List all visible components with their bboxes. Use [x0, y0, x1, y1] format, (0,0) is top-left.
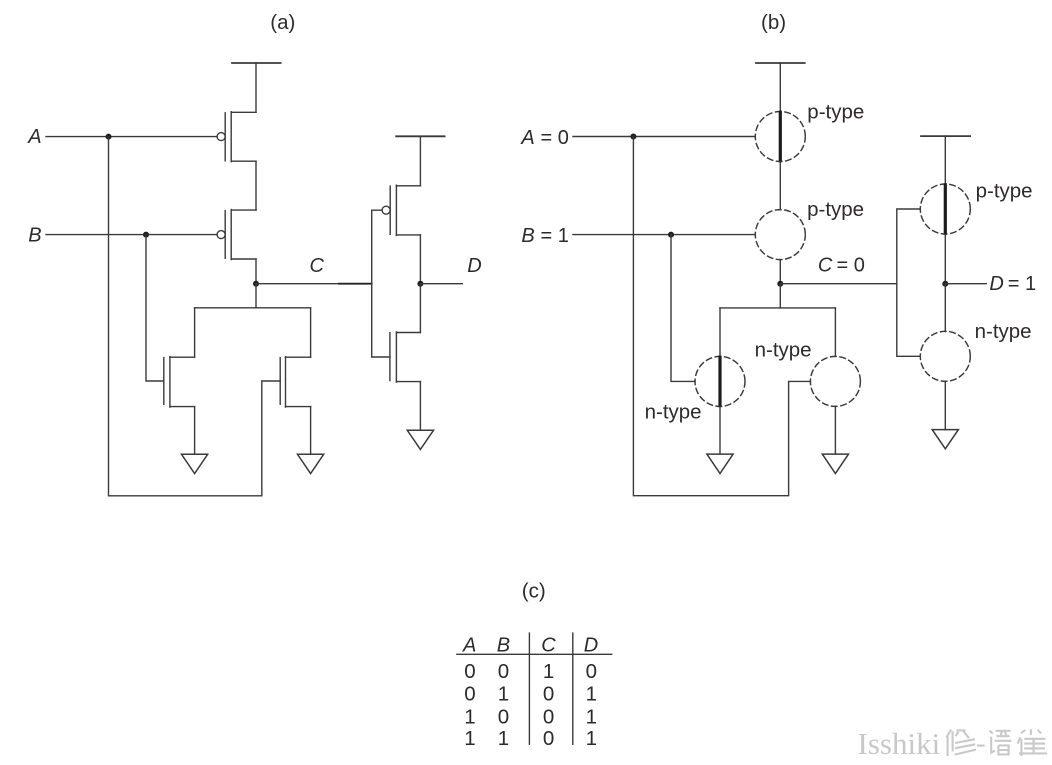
transistor Q5 (p-type, inverter) [382, 185, 420, 235]
svg-text:0: 0 [498, 706, 509, 729]
power rail VDD (b) NAND [756, 62, 805, 64]
ground symbol (b) inverter [932, 430, 958, 449]
wire Q3 source to ground [194, 407, 196, 455]
svg-text:p-type: p-type [807, 101, 864, 124]
node A junction [106, 134, 112, 140]
transistor T4 (n-type OFF, gate A) dashed circle [810, 356, 860, 406]
wire VDD rail to T1 [779, 63, 781, 112]
transistor Q2 (p-type, gate B) [217, 210, 256, 260]
node C (b) [777, 281, 783, 287]
svg-text:D: D [467, 255, 481, 277]
svg-text:D: D [989, 273, 1003, 295]
ground symbol (a) left [182, 454, 208, 473]
wire inverter gate bus [372, 210, 390, 357]
label B = 1 [521, 225, 568, 247]
wire Q6 source to ground [419, 382, 421, 431]
truth table row 3 [464, 706, 597, 729]
truth table row 1 [464, 660, 597, 683]
svg-text:1: 1 [543, 660, 554, 683]
wire node C to inverter input [256, 283, 372, 285]
truth table vertical rule 2 [572, 632, 574, 745]
transistor T5 conducting channel bar [944, 185, 947, 233]
svg-text:A: A [462, 634, 476, 656]
wire bus right drop [310, 308, 312, 357]
svg-text:1: 1 [586, 727, 597, 750]
svg-text:0: 0 [543, 706, 554, 729]
wire node D output (b) [945, 283, 986, 285]
wire overlap segment C to gate bus [339, 283, 372, 285]
svg-text:0: 0 [464, 660, 475, 683]
transistor T2 (p-type OFF, gate B) dashed circle [755, 210, 805, 260]
wire Q1 source to Q2 drain [255, 161, 257, 210]
svg-text:= 1: = 1 [1008, 273, 1036, 295]
ground symbol (b) right [822, 454, 848, 473]
ground symbol (a) inverter [407, 430, 433, 449]
transistor T5 (p-type ON, inverter) dashed circle [920, 184, 970, 234]
transistor Q3 (n-type, gate B) [164, 357, 195, 408]
svg-text:0: 0 [543, 683, 554, 706]
watermark CJK characters [948, 731, 1049, 758]
wire B junction to Q3 gate [146, 235, 164, 381]
svg-text:B: B [28, 224, 41, 246]
wire node D to T6 [944, 284, 946, 332]
svg-text:C: C [818, 255, 833, 277]
ground symbol (b) left [707, 454, 733, 473]
wire B junction to T3 gate [671, 235, 695, 382]
wire node C to pull-down bus (b) [720, 284, 780, 308]
wire T2 to node C [779, 260, 781, 284]
wire bus left drop (b) [719, 308, 721, 357]
svg-text:= 0: = 0 [541, 127, 569, 149]
transistor T3 conducting channel bar [718, 357, 721, 405]
svg-text:= 1: = 1 [541, 225, 569, 247]
node B junction (b) [668, 232, 674, 238]
svg-text:p-type: p-type [807, 198, 864, 221]
wire node D to Q6 drain [419, 284, 421, 333]
svg-text:0: 0 [586, 660, 597, 683]
ground symbol (a) right [298, 454, 324, 473]
node D [417, 281, 423, 287]
wire node C to inverter input (b) [780, 283, 897, 285]
svg-text:B: B [521, 225, 534, 247]
wire bus to Q4 drain [256, 307, 311, 309]
wire bus left drop [194, 308, 196, 357]
svg-text:1: 1 [464, 706, 475, 729]
wire bus to T4 drain (b) [780, 307, 835, 309]
svg-text:1: 1 [498, 683, 509, 706]
wire VDD rail to T5 [944, 136, 946, 184]
watermark Isshiki [858, 726, 943, 763]
svg-text:1: 1 [498, 727, 509, 750]
wire Q2 source to node C [255, 259, 257, 284]
wire T3 to ground [719, 406, 721, 454]
truth table horizontal rule [456, 653, 612, 655]
transistor T6 (n-type OFF, inverter) dashed circle [920, 331, 970, 381]
wire inverter gate bus (b) [897, 209, 920, 356]
power rail VDD (a) inverter [396, 135, 444, 137]
wire Q4 source to ground [310, 407, 312, 455]
label A = 0 [520, 127, 568, 149]
svg-text:= 0: = 0 [837, 255, 865, 277]
node B junction [143, 232, 149, 238]
label D = 1 [989, 273, 1036, 295]
svg-text:(a): (a) [270, 11, 295, 34]
power rail VDD (a) NAND [232, 62, 281, 64]
svg-text:(c): (c) [522, 579, 546, 602]
svg-text:C: C [310, 255, 325, 277]
svg-text:0: 0 [498, 660, 509, 683]
svg-text:C: C [541, 634, 556, 656]
wire input A [46, 136, 217, 138]
svg-text:n-type: n-type [645, 400, 702, 423]
wire input A [573, 136, 755, 138]
wire T1 to T2 [779, 162, 781, 210]
wire input B [46, 234, 217, 236]
svg-text:D: D [584, 634, 598, 656]
svg-text:B: B [497, 634, 510, 656]
power rail VDD (b) inverter [921, 135, 970, 137]
transistor Q6 (n-type, inverter) [390, 332, 421, 382]
svg-text:(b): (b) [761, 11, 786, 34]
truth table vertical rule 1 [528, 632, 530, 745]
wire VDD rail to Q1 drain [255, 63, 257, 112]
svg-text:n-type: n-type [975, 320, 1032, 343]
label C = 0 [818, 255, 865, 277]
wire T4 to ground [834, 406, 836, 454]
svg-text:Isshiki: Isshiki [858, 726, 941, 761]
wire bus right drop (b) [834, 308, 836, 357]
wire input B [573, 234, 755, 236]
wire node C to pull-down bus [195, 284, 256, 308]
truth table row 4 [464, 727, 597, 750]
transistor T1 (p-type ON, gate A) dashed circle [755, 112, 805, 162]
svg-text:n-type: n-type [755, 339, 812, 362]
transistor Q4 (n-type, gate A) [280, 357, 310, 408]
wire A junction to T4 gate (bottom route) [633, 137, 810, 496]
svg-text:0: 0 [543, 727, 554, 750]
svg-text:A: A [27, 126, 41, 148]
wire T5 to node D [944, 234, 946, 284]
node A junction (b) [630, 134, 636, 140]
svg-text:A: A [520, 127, 534, 149]
wire VDD rail to Q5 drain [419, 136, 421, 186]
svg-text:1: 1 [586, 683, 597, 706]
node D (b) [942, 281, 948, 287]
wire Q5 source to node D [419, 235, 421, 284]
svg-text:p-type: p-type [976, 179, 1033, 202]
wire T6 to ground [944, 381, 946, 429]
truth table row 2 [464, 683, 597, 706]
svg-text:1: 1 [464, 727, 475, 750]
wire node D output [420, 283, 462, 285]
transistor T1 conducting channel bar [779, 112, 782, 160]
transistor Q1 (p-type, gate A) [217, 112, 256, 162]
node C [253, 281, 259, 287]
svg-text:0: 0 [464, 683, 475, 706]
svg-text:1: 1 [586, 706, 597, 729]
wire A junction to Q4 gate (bottom route) [109, 137, 281, 496]
transistor T3 (n-type ON, gate B) dashed circle [695, 356, 745, 406]
